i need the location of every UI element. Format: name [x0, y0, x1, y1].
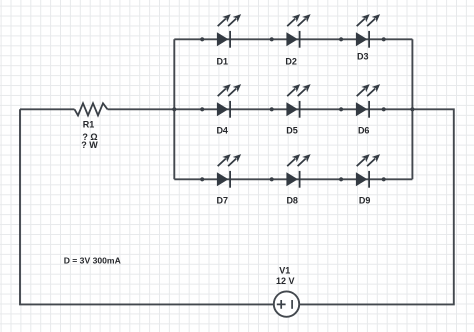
wire: top branch [174, 38, 412, 40]
LED D4 [217, 84, 241, 118]
LED D7 [217, 154, 241, 188]
svg-text:12 V: 12 V [276, 276, 295, 286]
wire: right bus [411, 39, 413, 179]
node: dot before D6 [339, 107, 343, 111]
svg-text:D3: D3 [357, 52, 369, 62]
svg-text:R1: R1 [83, 120, 95, 130]
wire: bottom branch [174, 178, 412, 180]
source V1 plus sign [277, 300, 286, 309]
svg-text:D6: D6 [358, 126, 370, 136]
svg-text:D7: D7 [217, 196, 229, 206]
svg-text:D1: D1 [217, 56, 229, 66]
node: dot before D4 [200, 107, 204, 111]
svg-text:? W: ? W [81, 140, 98, 150]
node: junction dot left bus / middle branch [172, 107, 176, 111]
node: dot after D3 [382, 37, 386, 41]
wire: outer loop left/bottom [20, 109, 274, 304]
node: dot after D6 [382, 107, 386, 111]
node: dot before D5 [270, 107, 274, 111]
wire: outer loop bottom-right/up [299, 109, 454, 304]
LED D5 [286, 84, 310, 118]
LED D8 [286, 154, 310, 188]
node: dot before D3 [339, 37, 343, 41]
svg-text:D9: D9 [359, 196, 371, 206]
svg-text:V1: V1 [279, 266, 290, 276]
wire: left bus [173, 39, 175, 179]
wire: middle branch left lead [20, 108, 75, 110]
svg-text:D5: D5 [286, 126, 298, 136]
LED D1 [217, 14, 241, 48]
wire: middle branch [108, 108, 413, 110]
LED D2 [286, 14, 310, 48]
node: dot before D2 [270, 37, 274, 41]
node: dot before D8 [270, 177, 274, 181]
LED D3 [356, 14, 380, 48]
LED D6 [356, 84, 380, 118]
node: dot before D9 [339, 177, 343, 181]
source V1 circle [274, 291, 299, 316]
svg-text:D4: D4 [216, 126, 228, 136]
svg-text:D2: D2 [285, 56, 297, 66]
node: junction dot right bus / middle branch [410, 107, 414, 111]
LED D9 [356, 154, 380, 188]
svg-text:D8: D8 [286, 196, 298, 206]
source V1 minus bar [291, 300, 293, 309]
svg-text:D = 3V 300mA: D = 3V 300mA [64, 255, 121, 265]
resistor R1 [75, 103, 108, 115]
node: dot before D1 [200, 37, 204, 41]
node: dot after D9 [382, 177, 386, 181]
node: dot before D7 [200, 177, 204, 181]
